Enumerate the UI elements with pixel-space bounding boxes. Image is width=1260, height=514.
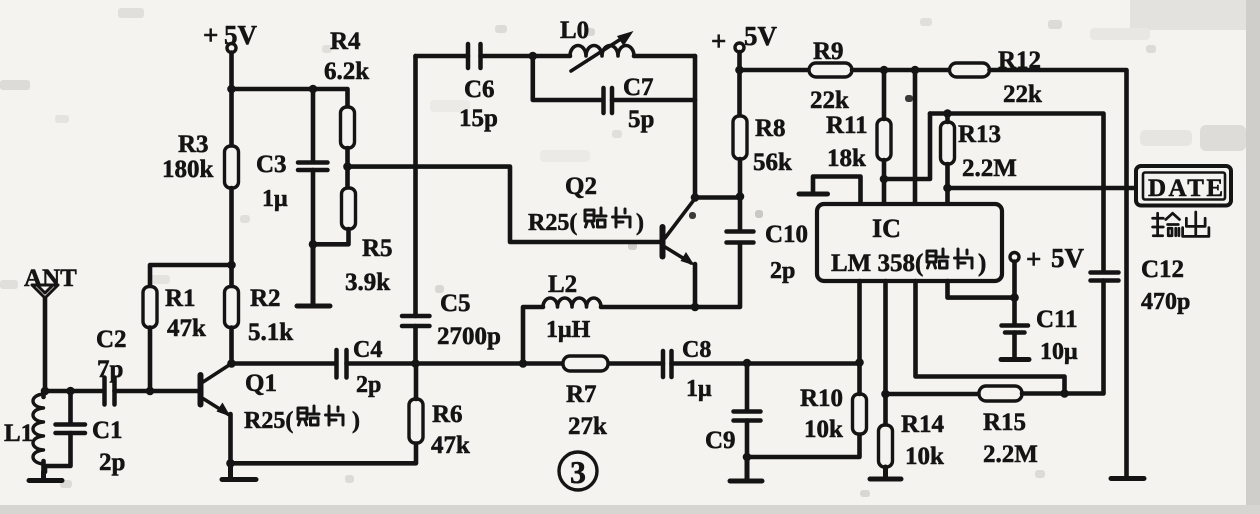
resistor R5 [313,188,393,296]
hanzi IC tiepian [927,249,948,268]
svg-text:2700p: 2700p [437,323,501,350]
wire tank right down [693,56,698,198]
wire rail to C3 and R4 [232,89,348,107]
svg-text:C12: C12 [1141,256,1184,283]
svg-text:C6: C6 [464,76,495,103]
capacitor C6 [459,44,570,132]
op-amp IC LM358 box [817,204,1002,281]
svg-text:Q2: Q2 [565,173,597,200]
svg-text:56k: 56k [753,149,792,176]
svg-text:R13: R13 [958,121,1001,148]
svg-text:10k: 10k [905,443,944,470]
wire branch to R1 [150,265,232,287]
svg-text:R25(: R25( [528,210,577,236]
svg-text:3.9k: 3.9k [345,269,390,296]
svg-text:2p: 2p [356,372,381,398]
svg-text:180k: 180k [162,156,214,183]
svg-text:C7: C7 [623,74,654,101]
capacitor C2 [96,326,197,405]
svg-text:7p: 7p [97,356,123,383]
wire main line centre [416,361,664,366]
wire emitter to R6 bottom [231,443,417,463]
node C9 [743,359,752,368]
svg-text:DATE: DATE [1148,175,1226,202]
wire IC pin6 to R14 [883,281,888,425]
svg-text:R4: R4 [330,28,361,55]
svg-text:C8: C8 [682,337,711,363]
svg-text:C3: C3 [256,151,287,178]
capacitor C11 [1002,298,1079,365]
svg-text:R14: R14 [901,411,945,438]
node R4-R5 [343,162,352,171]
svg-text:L2: L2 [548,271,577,298]
svg-text:): ) [978,250,986,277]
node ant [41,387,50,396]
wire IC pin8 to +5V [948,281,1015,298]
node L2 left [519,359,528,368]
wire +5V right down [737,52,742,116]
ground under C11 [1001,357,1029,362]
node C7 branch [529,52,538,61]
svg-text:R10: R10 [800,385,843,412]
svg-text:10k: 10k [804,416,843,443]
wire R3 to R2 [229,188,234,287]
svg-text:R5: R5 [362,235,393,262]
antenna ANT [24,265,77,391]
svg-text:R25(: R25( [244,408,293,434]
svg-text:1μ: 1μ [262,186,288,212]
svg-text:R15: R15 [983,409,1026,436]
svg-text:2.2M: 2.2M [962,155,1017,182]
inductor L1 [4,391,44,472]
hanzi Q1 tiepian [298,406,319,425]
svg-text:C2: C2 [96,326,127,353]
ground under L1 [29,472,62,481]
node R8 bottom [736,192,745,201]
node rail-R11 [880,66,889,75]
resistor R6 [409,364,470,460]
svg-text:R7: R7 [566,381,597,408]
+5V supply right terminal [711,21,778,56]
svg-text:R11: R11 [826,112,868,139]
node emitter [226,459,235,468]
svg-text:15p: 15p [459,105,498,132]
wire base node line [45,389,104,394]
wire IC pin2 [913,70,918,204]
resistor R7 [563,356,608,440]
ground under C3 [297,244,330,306]
svg-text:5V: 5V [744,21,778,51]
wire top tank left [416,54,469,59]
wire R15 line [886,392,980,397]
node R13 top [943,109,952,118]
svg-text:470p: 470p [1141,289,1190,315]
svg-text:L0: L0 [560,17,589,44]
svg-text:+: + [203,20,218,50]
svg-text:R8: R8 [755,115,786,142]
svg-text:3: 3 [570,454,586,490]
capacitor C1 [45,391,125,476]
resistor R1 [143,285,206,342]
svg-text:C5: C5 [440,290,471,317]
svg-text:22k: 22k [810,87,849,114]
resistor R2 [225,285,294,346]
svg-text:Q1: Q1 [245,370,277,397]
transistor Q2 [528,173,695,266]
node pin8-C11 [1010,293,1019,302]
resistor R15 [979,386,1103,468]
hanzi glyphs (drawn strokes) [298,208,1209,425]
wire emitter to C10 [695,243,740,307]
ground under Q1 [222,463,256,479]
IC pin1 stub [799,177,861,205]
capacitor C5 [402,56,501,364]
svg-text:2.2M: 2.2M [983,441,1038,468]
wire R13 top loop [930,114,1104,273]
svg-text:LM 358(: LM 358( [831,250,923,277]
svg-text:10μ: 10μ [1040,339,1078,365]
node C5/R6 [411,359,420,368]
svg-text:5p: 5p [628,106,654,133]
node main-IC pin [855,358,864,367]
capacitor C3 [256,89,328,244]
wire R1 to base node [148,328,153,392]
inductor L0 variable [560,17,695,71]
+5V supply IC terminal [1010,243,1085,298]
node rail-C3 [309,85,318,94]
+5V supply left terminal [203,20,258,53]
DATE output box [1136,166,1231,206]
svg-text:18k: 18k [827,145,866,172]
svg-text:L1: L1 [4,420,33,447]
wire R4R5 node to Q2 base [348,167,661,242]
svg-text:): ) [636,210,644,236]
label circled 3 [559,452,597,490]
resistor R8 [733,115,792,197]
wire top right rail [740,68,810,73]
node rail-R3 [227,85,236,94]
svg-text:+: + [1026,244,1041,274]
resistor R12 [950,47,1043,108]
ground under R12 line [1111,476,1144,481]
wire Q1 emitter down [228,414,233,463]
svg-text:C1: C1 [92,417,123,444]
node R1 branch [227,261,236,270]
svg-text:1μ: 1μ [686,376,712,402]
wire rail R9 to R12 [852,68,950,73]
svg-text:R9: R9 [813,38,844,65]
svg-text:47k: 47k [167,315,206,342]
svg-text:IC: IC [872,214,901,243]
wire IC pin7 loop [916,281,1065,394]
svg-text:R2: R2 [250,285,281,312]
capacitor C7 [533,56,695,133]
wire R4 to R5 [345,148,350,188]
resistor R13 [941,114,1017,205]
hanzi shuchu output [1153,213,1180,236]
wire R2 to collector node [229,328,234,364]
node C1 [66,387,75,396]
node R14 top [881,390,890,399]
node C9 bottom [743,453,752,462]
svg-text:R1: R1 [165,285,196,312]
hanzi Q2 tiepian [585,208,606,227]
svg-text:5V: 5V [224,20,258,50]
svg-text:5V: 5V [1051,243,1085,273]
ground under C9 [730,457,762,481]
svg-text:C9: C9 [705,427,736,454]
wire DATE output line [948,186,1137,191]
svg-text:R3: R3 [178,131,209,158]
resistor R3 [162,131,239,188]
node rail-pin [911,66,920,75]
resistor R9 [809,38,852,114]
svg-text:C10: C10 [765,221,808,248]
resistor R10 [800,363,867,443]
resistor R11 [826,70,891,204]
wire R11 node to R13 loop [884,114,930,180]
resistor R4 [324,28,369,148]
wire IC pin5 to main line [857,281,862,363]
capacitor C8 [663,337,860,402]
svg-text:27k: 27k [568,413,607,440]
svg-text:2p: 2p [99,449,125,476]
wire R12 right and down to ground [990,70,1127,477]
capacitor C12 [1091,256,1191,394]
wire collector to R8 [695,195,740,200]
capacitor C9 [705,363,761,457]
node R13 bottom [943,184,952,193]
svg-text:47k: 47k [431,432,470,459]
node C3-R5 [309,240,318,249]
svg-text:5.1k: 5.1k [248,319,293,346]
svg-text:2p: 2p [770,258,795,284]
node +5V rail right [735,66,744,75]
node Q1 collector [227,359,236,368]
transistor Q1 [201,364,361,435]
svg-text:1μH: 1μH [546,317,591,343]
svg-text:6.2k: 6.2k [324,58,369,85]
ground under R14 [870,467,901,479]
node R15-pin7 [1060,389,1069,398]
svg-text:+: + [711,26,726,56]
wire Q2 emitter down [693,264,698,307]
capacitor C4 [337,337,416,398]
inductor L2 [523,271,698,364]
node R11 bottom [880,175,889,184]
resistor R14 [879,411,945,470]
svg-text:C11: C11 [1036,306,1078,333]
wire main signal line left [232,361,337,366]
node emitter Q2 [691,303,700,312]
wire C9 to R10 bottom [747,434,860,457]
node R1-base [146,387,155,396]
node Q2 collector [691,193,700,202]
svg-text:R6: R6 [432,401,463,428]
svg-text:22k: 22k [1003,81,1042,108]
wire +5V left rail [229,53,234,147]
svg-text:C4: C4 [353,337,382,363]
capacitor C10 [727,197,809,285]
svg-text:): ) [352,408,360,434]
